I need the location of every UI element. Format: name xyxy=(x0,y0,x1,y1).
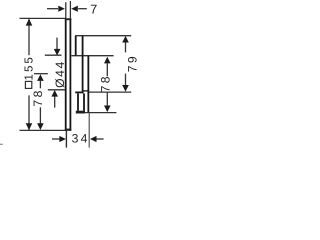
arrow dia44 top xyxy=(54,49,61,56)
plate left line xyxy=(65,18,67,130)
34 dim line right xyxy=(96,138,104,140)
grip top edge + 78 right extension line xyxy=(72,55,114,57)
plate right line xyxy=(69,18,71,130)
arrow 7 left xyxy=(58,6,65,12)
arrow 78 left bottom xyxy=(37,123,44,130)
svg-text:78: 78 xyxy=(99,74,113,92)
155 dim line lower xyxy=(28,95,30,130)
arrow 34 right xyxy=(90,136,97,142)
34 dim line left xyxy=(52,138,60,140)
arrow 155 top xyxy=(26,19,33,26)
155 dim line upper xyxy=(28,19,30,55)
34 right extension line (grip front below) xyxy=(88,113,90,148)
34 left extension line (wall line below plate) xyxy=(65,131,67,148)
grip bottom edge + 78 right lower extension line xyxy=(84,112,117,114)
bottom extension line (plate bottom) xyxy=(20,129,66,131)
79 bottom extension line xyxy=(89,91,131,93)
grip front line xyxy=(87,56,89,113)
lever right line xyxy=(83,93,85,110)
78 left dim line lower xyxy=(39,107,41,124)
sleeve left upper segment xyxy=(75,36,77,56)
svg-text:79: 79 xyxy=(125,54,139,72)
sleeve inner bottom edge xyxy=(75,91,83,93)
155 top extension line xyxy=(20,17,66,19)
dia44 top extension line xyxy=(45,54,62,56)
79 dim line lower xyxy=(125,74,127,86)
lever left line xyxy=(77,93,79,110)
svg-text:34: 34 xyxy=(72,132,90,146)
arrow 34 left xyxy=(59,136,66,142)
78 right dim line lower xyxy=(106,92,108,105)
arrow 79 top xyxy=(122,36,129,43)
arrow 78 right top xyxy=(104,57,111,64)
dimension 7 (top) left dim line xyxy=(47,8,58,10)
78 right dim line upper xyxy=(106,63,108,76)
svg-text:7: 7 xyxy=(90,1,97,16)
plate bottom cap xyxy=(65,129,71,131)
dimension 7 top right dim line xyxy=(78,8,87,10)
left edge dash xyxy=(0,143,3,145)
extension line plate right top xyxy=(69,1,71,18)
square symbol of 155 xyxy=(25,81,31,88)
plate top cap xyxy=(65,18,71,20)
svg-text:155: 155 xyxy=(23,55,36,80)
sleeve right / grip back line xyxy=(82,36,84,93)
svg-text:78: 78 xyxy=(31,88,45,106)
arrow 78 right bottom xyxy=(104,106,111,113)
lever bottom cap xyxy=(76,111,85,114)
knob bottom edge xyxy=(83,90,89,92)
arrow 79 bottom xyxy=(122,85,129,92)
extension line plate left top xyxy=(65,2,67,18)
78 left dim line upper xyxy=(39,81,41,88)
arrow 7 right xyxy=(71,6,78,12)
sleeve top edge + 79 extension line xyxy=(75,35,131,37)
79 dim line upper xyxy=(125,42,127,52)
arrow 155 bottom xyxy=(26,123,33,130)
dia44 dim line below xyxy=(54,96,56,107)
dia44 bottom extension line xyxy=(48,89,66,91)
arrow 78 left top xyxy=(37,74,44,81)
svg-text:Ø44: Ø44 xyxy=(53,60,67,88)
arrow dia44 bottom xyxy=(51,90,58,97)
78 left axis tick xyxy=(34,73,48,75)
dia44 dim line above xyxy=(56,38,58,50)
